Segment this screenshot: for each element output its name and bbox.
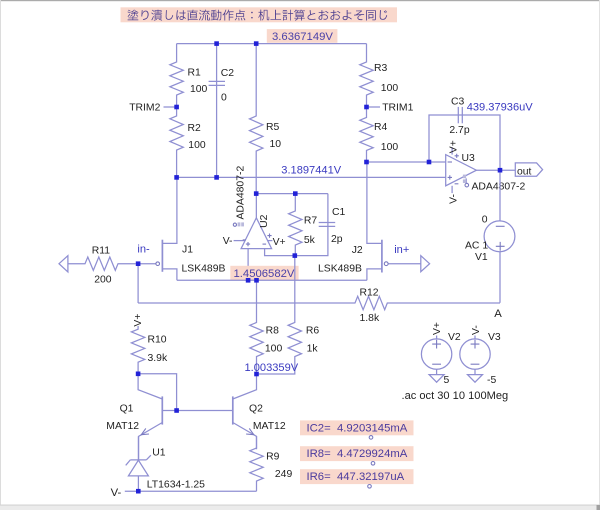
JFET J2 — [318, 162, 421, 280]
svg-text:1k: 1k — [307, 344, 319, 355]
svg-text:0: 0 — [482, 215, 488, 226]
svg-text:V-: V- — [448, 194, 459, 204]
svg-text:R8: R8 — [266, 325, 280, 336]
svg-text:out: out — [517, 166, 532, 177]
JFET J1 — [138, 177, 225, 280]
highlight 1.4506582V — [230, 266, 298, 280]
svg-text:MAT12: MAT12 — [106, 421, 139, 432]
op-amp U2 — [223, 166, 295, 281]
svg-text:AC 1: AC 1 — [465, 240, 488, 251]
svg-text:R11: R11 — [92, 245, 111, 256]
svg-text:LSK489B: LSK489B — [318, 263, 362, 274]
svg-text:J1: J1 — [182, 245, 193, 256]
svg-text:R7: R7 — [304, 215, 318, 226]
svg-text:100: 100 — [265, 344, 283, 355]
svg-text:R4: R4 — [374, 122, 388, 133]
svg-text:TRIM1: TRIM1 — [382, 102, 413, 113]
svg-text:2p: 2p — [331, 234, 343, 245]
svg-text:R6: R6 — [306, 325, 320, 336]
node dot TRIM1 — [364, 105, 369, 110]
comment text: dc operating point note (outlined glyphs) — [128, 10, 388, 21]
svg-text:.ac oct 30 10 100Meg: .ac oct 30 10 100Meg — [402, 390, 509, 402]
svg-text:100: 100 — [188, 140, 206, 151]
svg-text:TRIM2: TRIM2 — [129, 102, 160, 113]
node dot out — [498, 168, 503, 173]
transistor Q2 — [233, 374, 286, 449]
svg-text:R10: R10 — [148, 334, 167, 345]
node dot R8 bottom — [254, 372, 259, 377]
svg-text:A: A — [494, 308, 502, 320]
svg-text:V+: V+ — [448, 140, 459, 153]
node dot C3 left — [427, 160, 432, 165]
svg-text:R12: R12 — [360, 287, 379, 298]
window bottom status bar — [0, 505, 600, 510]
svg-text:U1: U1 — [152, 448, 166, 459]
svg-text:R9: R9 — [266, 452, 280, 463]
svg-text:in+: in+ — [394, 244, 409, 256]
svg-text:ADA4807-2: ADA4807-2 — [235, 166, 246, 220]
node dot V- rail — [136, 489, 141, 494]
svg-text:2.7p: 2.7p — [449, 125, 469, 136]
svg-text:C1: C1 — [332, 207, 346, 218]
wire base rail — [162, 410, 233, 412]
resistor R6 — [257, 256, 320, 374]
node dot R8 top — [254, 278, 259, 283]
svg-text:V1: V1 — [475, 252, 488, 263]
resistor R8 — [250, 280, 283, 374]
svg-text:3.9k: 3.9k — [148, 353, 168, 364]
svg-text:3.1897441V: 3.1897441V — [281, 165, 341, 177]
transistor Q1 — [106, 374, 162, 460]
svg-text:100: 100 — [381, 83, 399, 94]
svg-text:V+: V+ — [133, 314, 144, 327]
svg-text:249: 249 — [275, 469, 293, 480]
svg-text:3.6367149V: 3.6367149V — [272, 31, 333, 43]
svg-text:1.8k: 1.8k — [360, 313, 380, 324]
port in+ — [421, 256, 430, 272]
node TRIM1 — [367, 102, 414, 113]
svg-text:Q1: Q1 — [120, 404, 134, 415]
svg-text:V2: V2 — [448, 332, 461, 343]
wire source rail 1.45V — [177, 279, 367, 281]
svg-text:V-: V- — [471, 325, 482, 335]
svg-text:LT1634-1.25: LT1634-1.25 — [147, 480, 205, 491]
resistor R5 — [250, 44, 282, 194]
svg-text:R2: R2 — [188, 123, 202, 134]
node dot U2 output — [254, 191, 259, 196]
svg-text:Q2: Q2 — [249, 404, 263, 415]
node dot U2 plus input — [246, 278, 251, 283]
op-amp U3 — [446, 140, 526, 204]
wire U2 feedback top — [256, 193, 328, 195]
svg-text:439.37936uV: 439.37936uV — [467, 102, 534, 114]
resistor R11 — [68, 245, 136, 285]
wire V- rail — [125, 490, 257, 492]
measurement IR6 — [300, 469, 414, 484]
node dot R5 top — [254, 41, 259, 46]
voltage source V1 — [465, 170, 515, 303]
svg-text:C2: C2 — [221, 68, 235, 79]
svg-text:5k: 5k — [304, 235, 316, 246]
wire U3 inverting input — [367, 161, 446, 163]
svg-text:200: 200 — [94, 274, 112, 285]
resistor R12 — [138, 287, 500, 324]
svg-text:in-: in- — [137, 243, 150, 255]
capacitor C2 — [209, 44, 235, 178]
svg-text:V3: V3 — [488, 332, 501, 343]
resistor R1 — [170, 44, 208, 107]
port out — [515, 163, 542, 177]
node TRIM2 — [129, 102, 176, 113]
svg-text:V-: V- — [111, 487, 122, 499]
svg-text:-5: -5 — [487, 375, 496, 386]
resistor R10 — [131, 326, 168, 374]
window border right — [599, 0, 600, 510]
capacitor C1 — [295, 194, 346, 256]
node dot TRIM2 — [174, 105, 179, 110]
node dot R10 bottom — [136, 372, 141, 377]
wire top rail — [177, 43, 367, 45]
wire U3 output — [476, 169, 515, 171]
resistor R2 — [170, 107, 206, 177]
node dot R4 bottom — [364, 160, 369, 165]
svg-text:1.4506582V: 1.4506582V — [234, 268, 295, 280]
svg-text:J2: J2 — [352, 245, 363, 256]
highlight 3.6367149V — [267, 29, 338, 43]
measurement IC2 — [300, 420, 414, 435]
svg-text:V+: V+ — [432, 322, 443, 335]
svg-text:R3: R3 — [374, 63, 388, 74]
window border top — [0, 0, 600, 1]
svg-text:100: 100 — [381, 142, 399, 153]
svg-text:0: 0 — [221, 92, 227, 103]
node dot in- — [136, 261, 141, 266]
measurement IR8 — [300, 446, 414, 461]
comment highlight box (Japanese annotation) — [121, 7, 398, 22]
node dot base rail — [174, 408, 179, 413]
capacitor C3 — [429, 97, 500, 171]
svg-text:IR6= 447.32197uA: IR6= 447.32197uA — [307, 471, 405, 483]
node dot C2 top — [214, 41, 219, 46]
svg-text:ADA4807-2: ADA4807-2 — [472, 182, 526, 193]
svg-text:R5: R5 — [266, 122, 280, 133]
shunt reference U1 — [126, 436, 205, 491]
wire noninverting input rail 3.19V — [177, 176, 446, 178]
resistor R7 — [289, 194, 318, 256]
node dot C2 bottom — [214, 175, 219, 180]
svg-text:C3: C3 — [451, 97, 465, 108]
node dot R2 bottom — [174, 175, 179, 180]
svg-text:U3: U3 — [462, 153, 476, 164]
resistor R3 — [360, 44, 399, 107]
wire in- to R12 — [137, 264, 139, 303]
svg-text:V+: V+ — [273, 237, 286, 248]
svg-text:IR8= 4.4729924mA: IR8= 4.4729924mA — [307, 448, 408, 460]
svg-text:100: 100 — [190, 84, 208, 95]
svg-text:V-: V- — [223, 236, 233, 247]
svg-text:10: 10 — [270, 139, 282, 150]
svg-text:5: 5 — [444, 375, 450, 386]
node dot R7 top — [293, 191, 298, 196]
svg-text:R1: R1 — [188, 68, 202, 79]
node dot R7 bottom — [293, 253, 298, 258]
port in- — [59, 256, 68, 272]
window border left — [0, 0, 1, 510]
voltage source V3 — [460, 325, 501, 386]
svg-text:LSK489B: LSK489B — [182, 263, 226, 274]
svg-text:U2: U2 — [259, 214, 270, 228]
wire R10 to base rail — [138, 374, 177, 411]
svg-text:IC2= 4.9203145mA: IC2= 4.9203145mA — [307, 422, 408, 434]
svg-text:1.003359V: 1.003359V — [245, 362, 299, 374]
resistor R4 — [360, 107, 399, 162]
svg-text:MAT12: MAT12 — [253, 421, 286, 432]
voltage source V2 — [421, 322, 461, 386]
resistor R9 — [250, 436, 293, 491]
